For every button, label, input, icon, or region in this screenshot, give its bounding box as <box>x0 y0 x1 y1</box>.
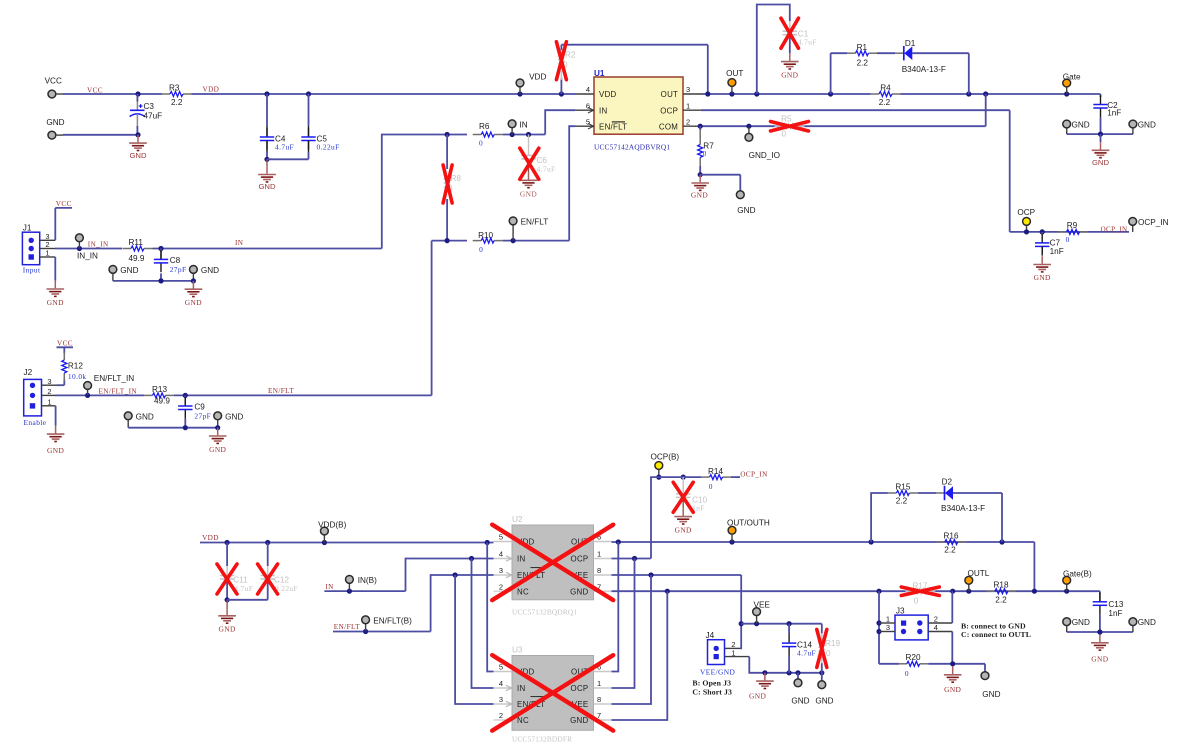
svg-text:IN: IN <box>235 239 244 247</box>
svg-text:OUTL: OUTL <box>968 569 990 578</box>
svg-text:GND: GND <box>944 685 961 694</box>
svg-text:GND: GND <box>737 206 755 215</box>
svg-text:1nF: 1nF <box>1107 109 1121 118</box>
svg-text:OCP: OCP <box>1017 208 1035 217</box>
svg-text:GND: GND <box>46 118 64 127</box>
svg-text:Gate: Gate <box>1063 72 1081 81</box>
svg-text:EN/FLT: EN/FLT <box>599 122 627 131</box>
svg-text:IN: IN <box>520 121 528 130</box>
svg-text:R1: R1 <box>857 43 868 52</box>
svg-text:5: 5 <box>499 533 503 542</box>
svg-text:GND: GND <box>570 587 588 596</box>
svg-text:0.22uF: 0.22uF <box>275 584 298 593</box>
svg-text:IN_IN: IN_IN <box>77 252 98 261</box>
svg-text:C: Short J3: C: Short J3 <box>692 688 732 697</box>
svg-text:UCC57142AQDBVRQ1: UCC57142AQDBVRQ1 <box>594 143 670 152</box>
svg-text:R16: R16 <box>943 532 958 541</box>
svg-text:2.2: 2.2 <box>995 596 1007 605</box>
svg-text:GND_IO: GND_IO <box>749 151 780 160</box>
svg-text:1: 1 <box>597 550 601 559</box>
svg-text:VDD: VDD <box>202 534 219 542</box>
svg-text:R6: R6 <box>479 122 490 131</box>
svg-text:J4: J4 <box>706 631 715 640</box>
svg-text:EN/FLT(B): EN/FLT(B) <box>373 617 412 626</box>
svg-text:VCC: VCC <box>45 76 62 85</box>
svg-text:R8: R8 <box>451 174 462 183</box>
svg-text:J3: J3 <box>896 607 905 616</box>
svg-text:R19: R19 <box>825 639 840 648</box>
svg-text:3: 3 <box>47 377 51 386</box>
svg-text:GND: GND <box>218 625 235 634</box>
svg-text:4.7uF: 4.7uF <box>798 38 817 47</box>
svg-text:3: 3 <box>686 85 690 94</box>
svg-text:VDD: VDD <box>203 86 220 94</box>
svg-text:4.7uF: 4.7uF <box>537 164 556 173</box>
svg-text:1: 1 <box>47 397 51 406</box>
svg-text:R2: R2 <box>565 51 576 60</box>
svg-text:VEE/GND: VEE/GND <box>700 668 735 677</box>
svg-text:R10: R10 <box>478 231 493 240</box>
svg-text:6: 6 <box>586 101 590 110</box>
svg-text:IN: IN <box>599 106 608 115</box>
svg-text:Gate(B): Gate(B) <box>1063 570 1092 579</box>
svg-text:R15: R15 <box>895 483 910 492</box>
svg-text:OCP(B): OCP(B) <box>651 453 680 462</box>
svg-text:R12: R12 <box>68 362 83 371</box>
svg-text:GND: GND <box>129 151 147 160</box>
svg-text:C: connect to OUTL: C: connect to OUTL <box>961 630 1031 639</box>
svg-text:GND: GND <box>1138 618 1156 627</box>
svg-text:1: 1 <box>45 249 49 258</box>
svg-text:U3: U3 <box>512 646 523 655</box>
svg-text:EN/FLT: EN/FLT <box>521 218 549 227</box>
svg-text:NC: NC <box>517 587 529 596</box>
svg-text:J2: J2 <box>24 368 33 377</box>
svg-text:2: 2 <box>686 117 690 126</box>
svg-text:OCP_IN: OCP_IN <box>1101 225 1128 233</box>
svg-text:U1: U1 <box>594 69 605 78</box>
svg-text:2.2: 2.2 <box>944 546 956 555</box>
svg-text:B: Open J3: B: Open J3 <box>692 679 731 688</box>
svg-text:Enable: Enable <box>24 418 47 427</box>
svg-text:GND: GND <box>520 189 537 198</box>
svg-text:GND: GND <box>47 446 64 455</box>
svg-text:GND: GND <box>201 266 219 275</box>
svg-text:GND: GND <box>185 298 202 307</box>
svg-text:0: 0 <box>826 649 831 658</box>
svg-text:GND: GND <box>1072 618 1090 627</box>
svg-text:1nF: 1nF <box>1108 609 1122 618</box>
svg-text:2: 2 <box>499 711 503 720</box>
svg-text:GND: GND <box>1092 158 1110 167</box>
svg-text:OUT: OUT <box>661 90 679 99</box>
svg-text:GND: GND <box>749 692 766 701</box>
svg-text:IN_IN: IN_IN <box>88 240 109 248</box>
svg-text:GND: GND <box>791 697 809 706</box>
svg-text:GND: GND <box>1034 273 1051 282</box>
svg-text:4.7uF: 4.7uF <box>797 649 816 658</box>
svg-text:49.9: 49.9 <box>129 254 145 263</box>
svg-text:R14: R14 <box>708 467 723 476</box>
svg-text:GND: GND <box>781 71 798 80</box>
svg-text:1: 1 <box>597 679 601 688</box>
svg-text:GND: GND <box>570 716 588 725</box>
svg-text:GND: GND <box>675 526 692 535</box>
svg-text:GND: GND <box>691 191 708 200</box>
svg-text:VDD: VDD <box>529 72 546 81</box>
svg-text:5: 5 <box>586 117 590 126</box>
svg-text:R9: R9 <box>1067 221 1078 230</box>
svg-text:B340A-13-F: B340A-13-F <box>902 65 946 74</box>
svg-text:EN/FLT: EN/FLT <box>334 623 360 631</box>
svg-text:27pF: 27pF <box>194 411 211 420</box>
svg-text:49.9: 49.9 <box>154 397 170 406</box>
svg-text:OCP_IN: OCP_IN <box>1138 218 1169 227</box>
svg-text:VDD: VDD <box>599 90 617 99</box>
svg-text:8: 8 <box>597 566 601 575</box>
svg-text:OUT/OUTH: OUT/OUTH <box>727 519 770 528</box>
svg-text:2: 2 <box>499 582 503 591</box>
svg-text:B: connect to GND: B: connect to GND <box>961 621 1026 630</box>
svg-text:OCP: OCP <box>571 555 589 564</box>
svg-text:2.2: 2.2 <box>896 497 908 506</box>
svg-text:GND: GND <box>136 412 154 421</box>
svg-text:OCP_IN: OCP_IN <box>740 471 768 479</box>
svg-text:GND: GND <box>120 266 138 275</box>
svg-text:0: 0 <box>703 149 707 158</box>
svg-text:4.7uF: 4.7uF <box>275 143 294 152</box>
svg-text:3: 3 <box>499 566 503 575</box>
svg-text:2.2: 2.2 <box>879 98 891 107</box>
svg-text:3: 3 <box>499 695 503 704</box>
svg-text:GND: GND <box>209 445 226 454</box>
svg-text:VCC: VCC <box>56 200 72 208</box>
svg-text:GND: GND <box>225 412 243 421</box>
svg-text:GND: GND <box>1091 655 1108 664</box>
svg-text:0: 0 <box>479 138 483 147</box>
svg-text:B340A-13-F: B340A-13-F <box>941 504 985 513</box>
svg-text:GND: GND <box>982 690 1000 699</box>
svg-text:R18: R18 <box>993 581 1008 590</box>
svg-text:0: 0 <box>1066 235 1070 244</box>
svg-text:3: 3 <box>886 623 890 632</box>
svg-text:OCP: OCP <box>571 684 589 693</box>
svg-text:8: 8 <box>597 695 601 704</box>
svg-text:4: 4 <box>934 623 938 632</box>
svg-text:C9: C9 <box>194 402 205 411</box>
svg-text:27pF: 27pF <box>170 265 187 274</box>
svg-text:OUT: OUT <box>726 69 743 78</box>
svg-text:2.2: 2.2 <box>171 98 183 107</box>
svg-text:4: 4 <box>586 85 590 94</box>
svg-text:0: 0 <box>905 669 909 678</box>
svg-text:R13: R13 <box>152 385 167 394</box>
svg-text:VDD(B): VDD(B) <box>318 520 346 529</box>
svg-text:GND: GND <box>1138 121 1156 130</box>
svg-text:EN/FLT_IN: EN/FLT_IN <box>99 388 138 396</box>
svg-text:2: 2 <box>47 387 51 396</box>
svg-text:1nF: 1nF <box>1050 247 1064 256</box>
svg-text:IN(B): IN(B) <box>358 576 377 585</box>
svg-text:UCC57132BDDFR: UCC57132BDDFR <box>512 735 572 744</box>
svg-text:2.2: 2.2 <box>857 58 869 67</box>
svg-text:R11: R11 <box>129 238 144 247</box>
svg-text:D2: D2 <box>942 477 953 486</box>
svg-text:NC: NC <box>517 716 529 725</box>
svg-text:D1: D1 <box>905 39 916 48</box>
svg-text:C13: C13 <box>1108 600 1123 609</box>
svg-text:R4: R4 <box>880 84 891 93</box>
svg-text:IN: IN <box>517 555 526 564</box>
svg-text:C8: C8 <box>170 256 181 265</box>
svg-text:GND: GND <box>1072 121 1090 130</box>
svg-text:GND: GND <box>815 697 833 706</box>
svg-text:Input: Input <box>23 265 41 274</box>
svg-text:VCC: VCC <box>57 339 73 347</box>
svg-text:GND: GND <box>47 298 64 307</box>
svg-text:47uF: 47uF <box>144 111 163 120</box>
svg-text:R20: R20 <box>905 653 920 662</box>
svg-text:10.0k: 10.0k <box>68 372 87 381</box>
svg-text:EN/FLT_IN: EN/FLT_IN <box>94 374 134 383</box>
svg-text:R3: R3 <box>169 83 180 92</box>
svg-text:VEE: VEE <box>754 601 771 610</box>
svg-text:R5: R5 <box>781 115 792 124</box>
svg-text:0: 0 <box>782 130 787 139</box>
svg-text:COM: COM <box>659 122 678 131</box>
svg-text:IN: IN <box>325 583 334 591</box>
svg-text:4: 4 <box>499 679 503 688</box>
svg-text:J1: J1 <box>23 223 32 232</box>
svg-text:1: 1 <box>686 101 690 110</box>
svg-text:GND: GND <box>258 182 276 191</box>
svg-text:0: 0 <box>479 245 483 254</box>
svg-text:0.22uF: 0.22uF <box>317 143 340 152</box>
svg-text:0: 0 <box>709 482 713 491</box>
svg-text:EN/FLT: EN/FLT <box>268 387 294 395</box>
svg-text:UCC57132BQDRQ1: UCC57132BQDRQ1 <box>512 608 577 617</box>
svg-text:IN: IN <box>517 684 526 693</box>
svg-text:4: 4 <box>499 550 503 559</box>
svg-text:C3: C3 <box>144 102 155 111</box>
svg-text:OCP: OCP <box>660 106 678 115</box>
svg-text:U2: U2 <box>512 515 523 524</box>
svg-text:0: 0 <box>914 596 919 605</box>
